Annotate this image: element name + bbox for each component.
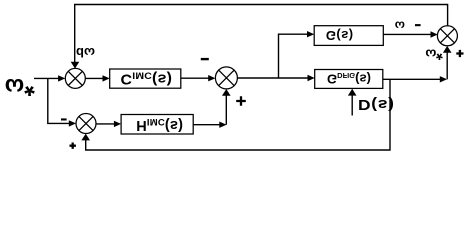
summing junction S3	[437, 26, 457, 46]
sign plus at S4	[70, 143, 76, 149]
svg-text:ω: ω	[425, 47, 436, 62]
svg-text:ω: ω	[5, 74, 24, 100]
wire S4 to H block	[96, 123, 115, 125]
wire H block output to corner	[193, 124, 220, 126]
wire corner up into S3 bottom	[446, 48, 448, 79]
summing junction S4	[76, 114, 96, 134]
sign plus at S3	[456, 50, 463, 57]
sign minus at S2	[201, 58, 209, 60]
arrowhead down into S1	[71, 62, 80, 69]
arrowhead into C block	[103, 75, 110, 81]
wire corner up into S2 bottom	[225, 92, 227, 125]
svg-text:*: *	[436, 44, 443, 64]
wire branch up to G block	[279, 34, 308, 78]
sign minus at S3	[415, 24, 421, 26]
wire Gdfig output to corner	[383, 78, 440, 80]
arrowhead into Gdfig block	[308, 75, 315, 81]
arrowhead right at Gdfig output corner	[440, 76, 447, 82]
svg-text:D(s): D(s)	[358, 96, 395, 111]
svg-text:ω: ω	[395, 18, 405, 32]
wire C block to S2	[181, 77, 209, 79]
wire branch down to summer S4	[48, 78, 70, 123]
sign plus at S2	[236, 96, 246, 106]
wire branch to Gdfig block	[279, 77, 308, 79]
wire model feedback down and across bottom	[86, 79, 390, 150]
wire top feedback line	[75, 5, 448, 67]
arrowhead into S3 left	[431, 31, 438, 37]
block C_IMC(s)	[110, 69, 181, 88]
svg-text:G(s): G(s)	[326, 28, 354, 43]
block G_DFIG(s)	[315, 70, 383, 89]
arrowhead up into S4 bottom	[81, 134, 90, 141]
arrowhead into S4 left	[69, 120, 76, 126]
wire S2 output to branch node	[237, 77, 278, 79]
wire disturbance D input	[351, 91, 353, 116]
arrowhead up into S3 bottom	[443, 46, 452, 53]
block H_IMC(s)	[121, 115, 193, 135]
arrowhead into H block	[114, 121, 121, 127]
arrowhead into S2 left	[208, 75, 215, 81]
arrowhead omega* into S1	[58, 75, 65, 81]
svg-text:*: *	[24, 72, 35, 102]
sign minus at S4	[61, 118, 67, 120]
block G(s)	[314, 26, 383, 46]
svg-text:dω: dω	[76, 45, 95, 60]
summing junction S1	[65, 68, 85, 88]
wire G to S3	[383, 33, 431, 35]
summing junction S2	[215, 67, 237, 89]
arrowhead up into S2 bottom	[222, 89, 231, 96]
wire omega* input	[34, 77, 59, 79]
arrowhead into G block	[307, 31, 314, 37]
wire S1 to C block	[85, 77, 103, 79]
arrowhead up of D input	[348, 89, 357, 96]
arrowhead right at H output corner	[219, 122, 226, 128]
